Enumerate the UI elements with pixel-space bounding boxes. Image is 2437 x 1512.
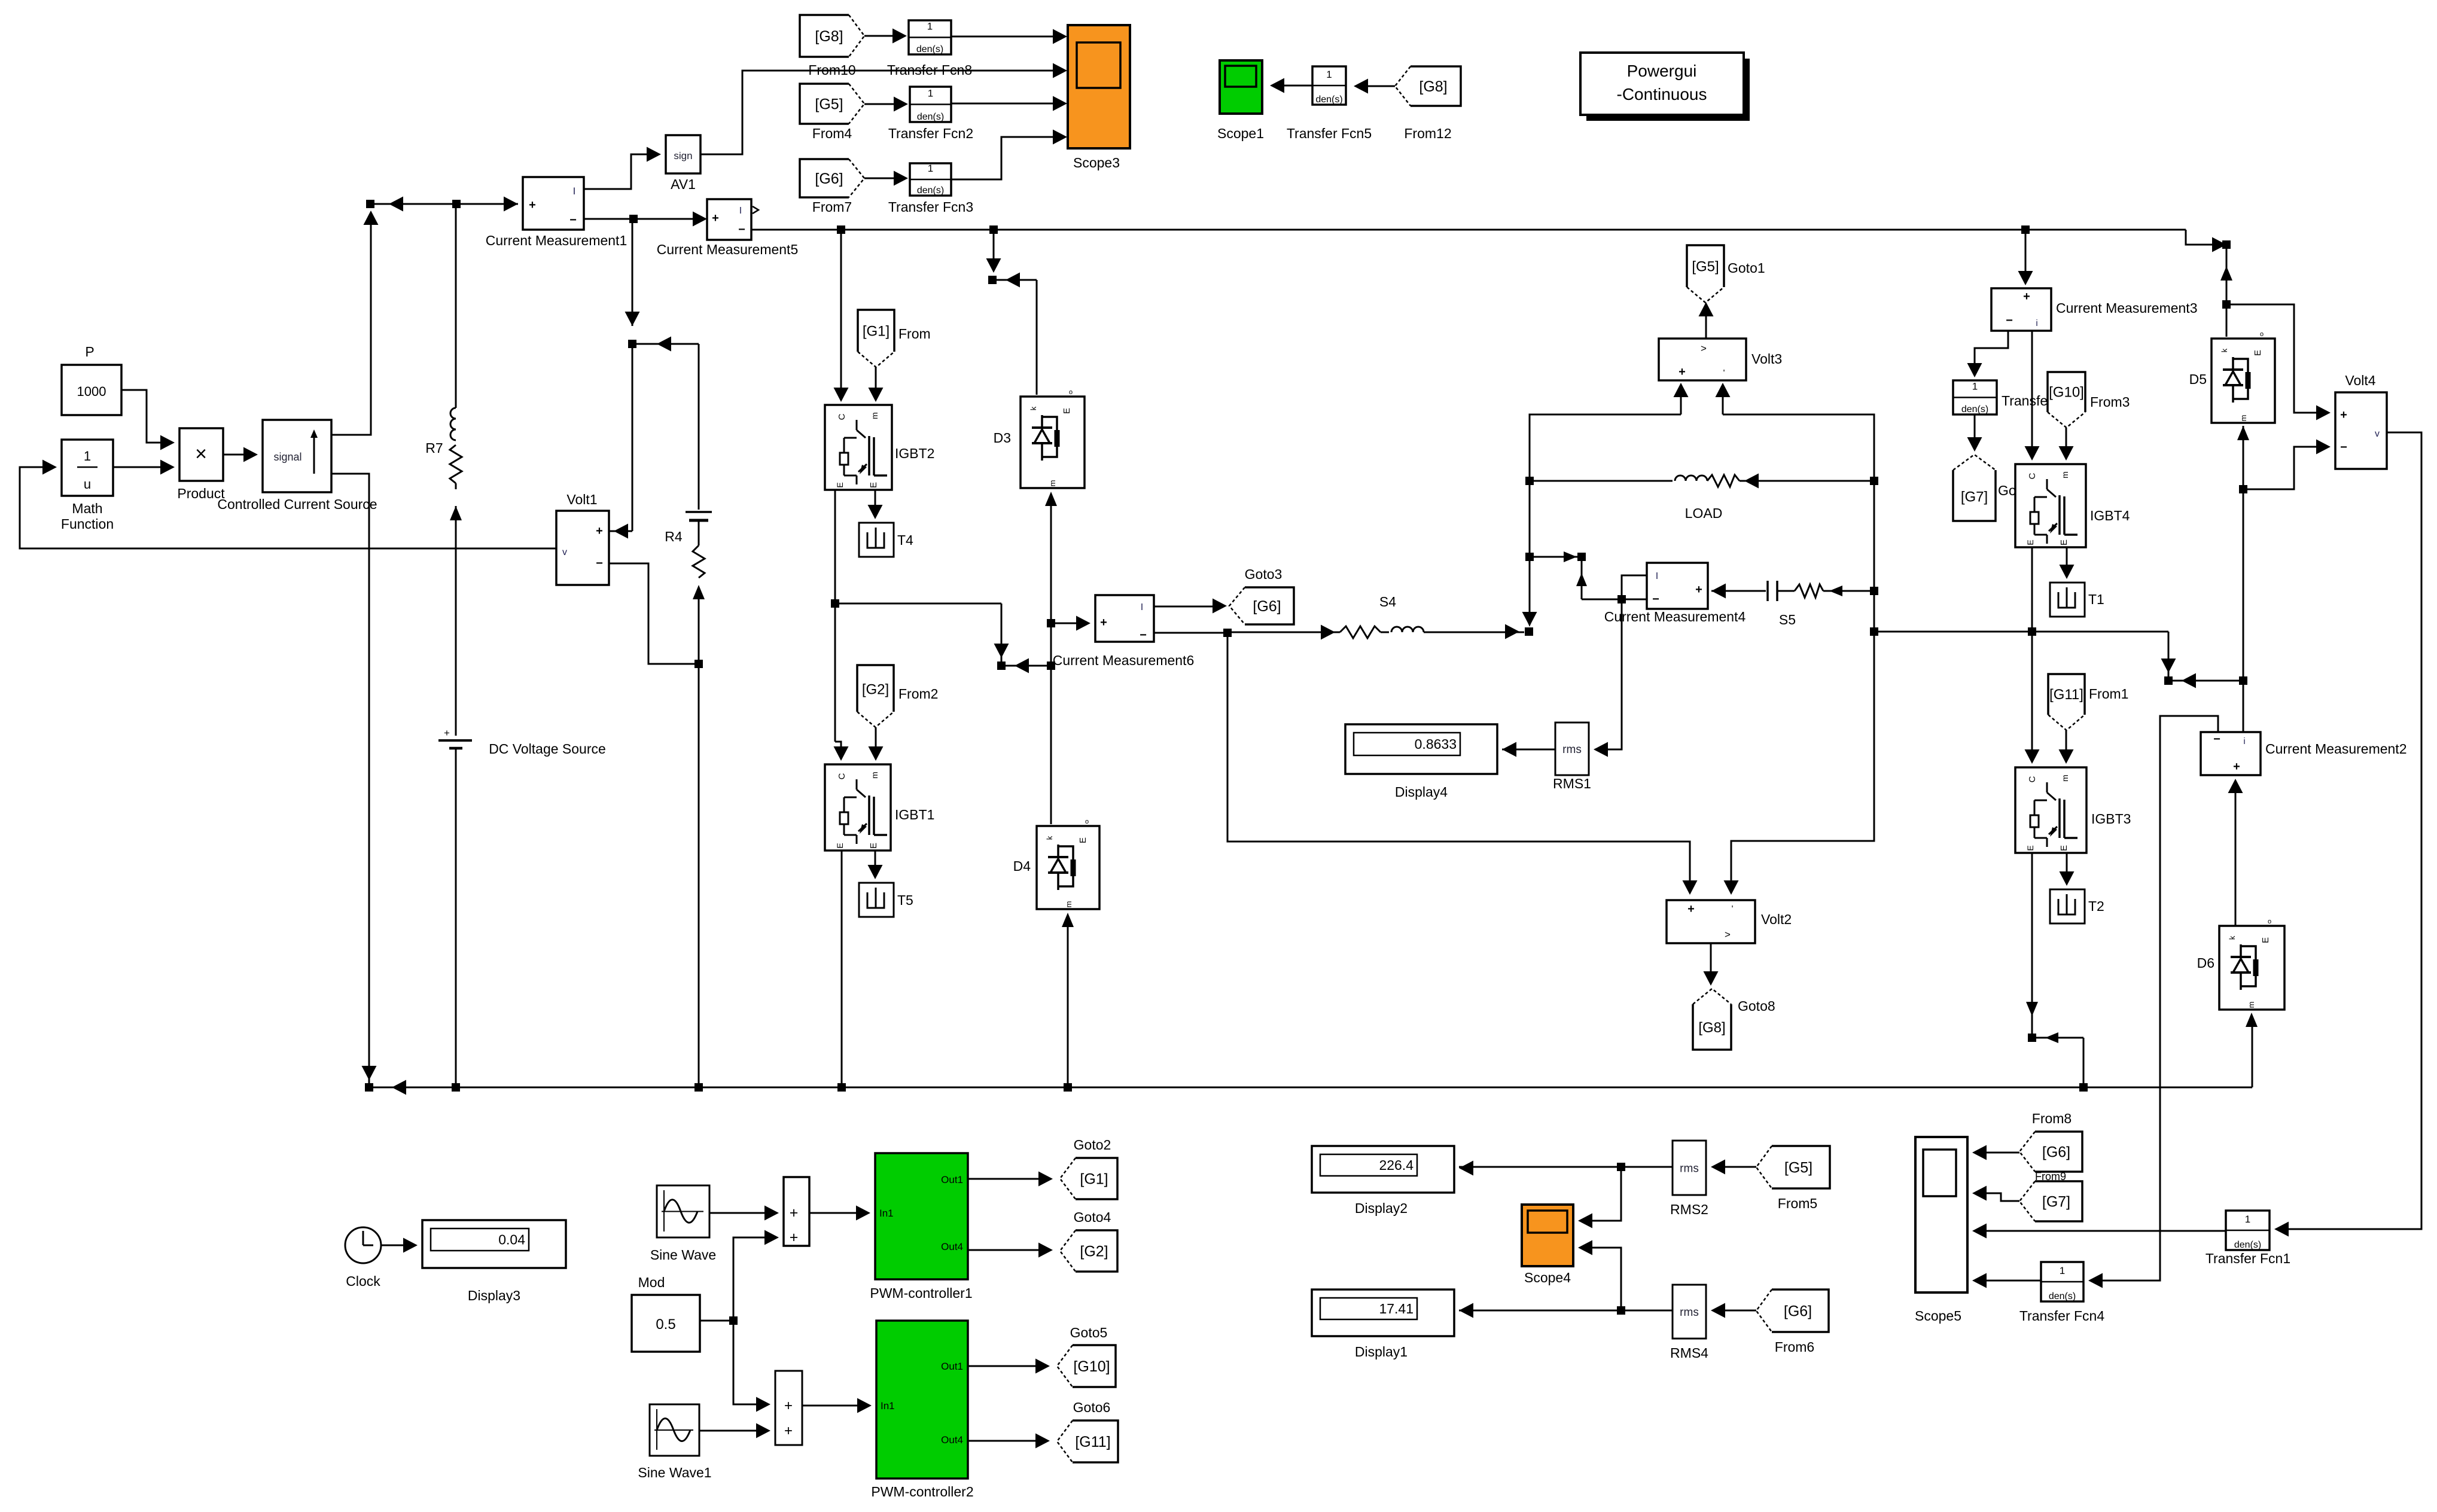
sum block Sum1 xyxy=(775,1371,802,1445)
svg-text:−: − xyxy=(2006,314,2013,327)
current measurement block Current Measurement4 xyxy=(1647,563,1708,609)
wire Mod to Sum1 first input xyxy=(733,1321,766,1404)
wire RMS1 to Display4 xyxy=(1502,749,1555,751)
svg-text:Scope3: Scope3 xyxy=(1073,155,1120,170)
igbt block IGBT2 xyxy=(825,405,892,490)
svg-text:[G6]: [G6] xyxy=(2042,1144,2070,1161)
igbt block IGBT3 xyxy=(2015,767,2086,853)
svg-text:o: o xyxy=(1085,818,1089,825)
wire D6 to Current Measurement2 plus xyxy=(2235,784,2237,926)
svg-text:m: m xyxy=(870,772,879,779)
svg-text:sign: sign xyxy=(674,150,692,161)
svg-text:Out4: Out4 xyxy=(941,1434,963,1446)
svg-text:signal: signal xyxy=(273,451,301,463)
svg-text:Current Measurement2: Current Measurement2 xyxy=(2265,741,2407,757)
svg-text:Transfer Fcn3: Transfer Fcn3 xyxy=(888,199,973,215)
svg-text:[G11]: [G11] xyxy=(1075,1434,1110,1450)
svg-text:v: v xyxy=(562,547,567,557)
wire controlled current source plus up to node A xyxy=(331,224,371,435)
junction on top rail to D3 xyxy=(989,225,998,234)
wire Mod output junction xyxy=(700,1320,733,1322)
svg-text:D6: D6 xyxy=(2197,955,2214,971)
svg-text:den(s): den(s) xyxy=(1961,404,1988,414)
wire Current Measurement1 I to AV1 xyxy=(584,154,656,189)
svg-text:I: I xyxy=(1656,571,1658,581)
svg-text:m: m xyxy=(2247,1002,2256,1008)
svg-text:-Continuous: -Continuous xyxy=(1617,85,1707,103)
wire D5 branch to Volt4 plus xyxy=(2226,304,2326,413)
svg-text:D4: D4 xyxy=(1013,858,1031,874)
current measurement block Current Measurement2 xyxy=(2201,732,2261,775)
svg-text:E: E xyxy=(2059,845,2069,851)
wire Sum1 to PWM-controller2 xyxy=(802,1405,867,1407)
svg-text:E: E xyxy=(2025,539,2035,545)
wire IGBT1 E to T5 xyxy=(875,850,876,876)
series RC branch R4 xyxy=(698,344,700,510)
svg-text:[G10]: [G10] xyxy=(2049,385,2084,401)
svg-text:−: − xyxy=(738,223,745,236)
svg-text:E: E xyxy=(835,843,845,848)
wire IGBT1 emitter to bottom rail xyxy=(841,850,843,1087)
svg-text:i: i xyxy=(2036,318,2037,328)
svg-text:+: + xyxy=(2340,409,2347,422)
svg-text:k: k xyxy=(2220,348,2229,352)
svg-text:Out4: Out4 xyxy=(941,1241,963,1252)
svg-text:[G6]: [G6] xyxy=(1253,598,1281,615)
wire Goto3 junction down to Volt2 plus xyxy=(1227,633,1690,890)
svg-text:m: m xyxy=(2060,775,2070,782)
svg-text:>: > xyxy=(1701,343,1707,354)
current measurement block Current Measurement5 xyxy=(707,199,751,240)
svg-text:E: E xyxy=(2059,539,2069,545)
from tag From7 [G6] xyxy=(800,159,864,197)
junction on top rail to IGBT2 xyxy=(837,225,845,234)
pwm controller subsystem PWM-controller1 xyxy=(875,1153,968,1279)
svg-text:Current Measurement4: Current Measurement4 xyxy=(1604,609,1746,624)
wire PWM-controller2 Out1 to Goto5 xyxy=(968,1365,1045,1367)
svg-text:Mod: Mod xyxy=(638,1275,665,1290)
svg-text:+: + xyxy=(1687,903,1695,916)
svg-text:den(s): den(s) xyxy=(2234,1240,2261,1250)
sine wave block Sine Wave1 xyxy=(650,1404,699,1456)
svg-text:−: − xyxy=(2213,733,2220,746)
wire junction down to R4 top xyxy=(632,219,633,326)
wire Sine Wave1 to Sum1 xyxy=(699,1430,766,1432)
diode block D5 xyxy=(2211,339,2275,423)
svg-text:C: C xyxy=(837,773,847,779)
svg-text:+: + xyxy=(784,1423,793,1439)
svg-text:Scope4: Scope4 xyxy=(1524,1270,1571,1285)
wire into Volt1 plus xyxy=(632,344,633,531)
svg-text:Current Measurement5: Current Measurement5 xyxy=(657,242,799,257)
junction on top rail to Current Measurement3 xyxy=(2021,225,2030,234)
series RLC branch R7 xyxy=(455,204,457,408)
svg-text:0.5: 0.5 xyxy=(656,1316,675,1333)
wire Transfer Fcn5 to Scope1 xyxy=(1275,85,1312,87)
wire IGBT2 emitter branch to diode rail xyxy=(835,603,1001,605)
svg-text:E: E xyxy=(1078,837,1088,843)
svg-text:From8: From8 xyxy=(2032,1111,2072,1126)
svg-text:+: + xyxy=(596,525,603,538)
svg-text:C: C xyxy=(2027,472,2037,479)
svg-text:C: C xyxy=(2027,776,2037,782)
svg-text:+: + xyxy=(784,1398,793,1414)
constant block Mod = 0.5 xyxy=(632,1295,700,1352)
svg-text:[G10]: [G10] xyxy=(1073,1358,1110,1375)
wire IGBT2 emitter jog into IGBT1 C xyxy=(835,742,841,757)
wire From2 to IGBT1 g xyxy=(875,727,877,757)
wire PWM-controller1 Out4 to Goto4 xyxy=(968,1249,1048,1251)
product block xyxy=(179,428,223,481)
svg-text:Transfer Fcn5: Transfer Fcn5 xyxy=(1287,126,1372,141)
from tag From6 [G6] xyxy=(1756,1290,1829,1332)
transfer function Transfer Fcn3 xyxy=(910,163,951,196)
svg-text:Sine Wave: Sine Wave xyxy=(650,1247,716,1263)
svg-text:1: 1 xyxy=(84,449,91,464)
sine wave block Sine Wave xyxy=(657,1185,709,1237)
current measurement block Current Measurement6 xyxy=(1095,595,1154,642)
pulse generator T1 xyxy=(2050,583,2085,617)
svg-text:+: + xyxy=(1100,616,1107,629)
wire rail to D5 cathode xyxy=(2226,245,2228,337)
svg-text:From1: From1 xyxy=(2089,686,2128,702)
wire IGBT4 E to T1 xyxy=(2066,547,2068,575)
rms block RMS1 xyxy=(1555,723,1589,775)
transfer function Transfer Fcn2 xyxy=(910,87,951,122)
svg-text:Transfer Fcn4: Transfer Fcn4 xyxy=(2019,1308,2105,1324)
svg-text:1: 1 xyxy=(2060,1265,2065,1276)
svg-text:0.04: 0.04 xyxy=(498,1232,525,1248)
wire Transfer Fcn3 to Scope3 in4 xyxy=(951,137,1062,179)
wire top rail down to IGBT2 C xyxy=(840,230,842,398)
wire RMS4 junction to Scope4 in2 xyxy=(1583,1248,1621,1310)
wire PWM-controller1 Out1 to Goto2 xyxy=(968,1178,1048,1180)
wire Volt2 v to Goto8 xyxy=(1710,943,1712,981)
svg-text:−: − xyxy=(1140,629,1147,642)
wire Current Measurement2 I out xyxy=(2093,716,2218,1281)
series RL branch S4 xyxy=(1227,632,1340,633)
scope Scope3 xyxy=(1068,25,1130,148)
svg-text:Out1: Out1 xyxy=(941,1174,963,1185)
wire AV1 to Scope3 in2 xyxy=(700,71,1062,154)
svg-text:m: m xyxy=(870,412,879,419)
clock block xyxy=(345,1227,381,1263)
svg-text:PWM-controller1: PWM-controller1 xyxy=(870,1285,972,1301)
wire Mod to Sum second input xyxy=(733,1237,774,1321)
svg-text:+: + xyxy=(444,727,450,739)
svg-text:Goto3: Goto3 xyxy=(1245,566,1283,582)
controlled current source xyxy=(263,420,331,492)
pulse generator T2 xyxy=(2050,889,2085,923)
wire RMS2 junction to Scope4 in1 xyxy=(1583,1167,1621,1221)
svg-text:S5: S5 xyxy=(1779,612,1796,627)
svg-text:−: − xyxy=(2340,441,2347,454)
wire Transfer Fcn8 to Scope3 in1 xyxy=(951,36,1062,38)
display block Display3 xyxy=(422,1220,566,1268)
svg-text:17.41: 17.41 xyxy=(1379,1301,1414,1316)
wire Sine Wave to Sum xyxy=(709,1212,774,1214)
svg-text:T5: T5 xyxy=(897,892,913,908)
svg-text:RMS1: RMS1 xyxy=(1553,776,1591,791)
svg-text:IGBT3: IGBT3 xyxy=(2091,811,2131,827)
svg-text:k: k xyxy=(1045,836,1054,840)
svg-text:Out1: Out1 xyxy=(941,1361,963,1372)
wire From7 to Transfer Fcn3 xyxy=(864,178,903,179)
wire Volt3 v to Goto1 xyxy=(1705,306,1707,339)
svg-text:Volt4: Volt4 xyxy=(2345,373,2375,388)
wire Volt3 right rail xyxy=(1723,414,1874,890)
svg-text:×: × xyxy=(195,443,207,465)
svg-text:RMS4: RMS4 xyxy=(1670,1345,1708,1361)
svg-text:I: I xyxy=(1141,602,1143,612)
wire Clock to Display3 xyxy=(381,1245,413,1246)
svg-text:T2: T2 xyxy=(2088,898,2104,914)
pulse generator T5 xyxy=(859,883,894,917)
from tag From2 [G2] xyxy=(857,665,894,727)
svg-text:From4: From4 xyxy=(812,126,852,141)
wire Transfer Fcn7 to Goto7 xyxy=(1974,414,1976,447)
wire From to IGBT2 g xyxy=(875,367,877,398)
from tag From [G1] xyxy=(858,310,894,367)
svg-text:S4: S4 xyxy=(1379,594,1396,609)
wire into Current Measurement1 plus xyxy=(370,203,518,205)
svg-text:−: − xyxy=(596,557,603,570)
svg-text:P: P xyxy=(85,344,94,359)
svg-text:From: From xyxy=(898,326,931,342)
svg-text:E: E xyxy=(1062,408,1072,414)
rms block RMS4 xyxy=(1673,1285,1706,1339)
svg-text:[G8]: [G8] xyxy=(1698,1020,1725,1036)
svg-text:IGBT4: IGBT4 xyxy=(2090,508,2130,523)
svg-text:Transfer Fcn2: Transfer Fcn2 xyxy=(888,126,973,141)
svg-text:PWM-controller2: PWM-controller2 xyxy=(871,1484,973,1499)
from tag From4 [G5] xyxy=(800,84,864,124)
svg-text:[G8]: [G8] xyxy=(1419,78,1447,95)
svg-text:Sine Wave1: Sine Wave1 xyxy=(638,1465,711,1480)
svg-text:Function: Function xyxy=(61,516,114,532)
voltage measurement block Volt4 xyxy=(2335,392,2387,469)
svg-text:v: v xyxy=(2375,429,2380,439)
powergui block xyxy=(1586,59,1750,121)
wire From4 to Transfer Fcn2 xyxy=(864,103,903,105)
wire Volt1 minus to R4 branch xyxy=(609,563,699,664)
wire From8 to Scope5 in1 xyxy=(1977,1152,2019,1154)
wire IGBT2 emitter down xyxy=(834,490,836,742)
svg-text:E: E xyxy=(869,482,879,488)
svg-text:[G6]: [G6] xyxy=(1784,1303,1812,1320)
svg-text:E: E xyxy=(835,482,845,487)
wire controlled current source minus down to bottom rail xyxy=(331,474,369,1087)
svg-text:I: I xyxy=(573,185,576,197)
svg-text:': ' xyxy=(1723,368,1725,378)
wire Volt3 left rail xyxy=(1530,414,1681,622)
wire R4 top to junction xyxy=(632,343,699,345)
rms block RMS2 xyxy=(1673,1141,1706,1195)
scope Scope5 xyxy=(1915,1137,1967,1292)
transfer function Transfer Fcn5 xyxy=(1312,66,1346,105)
wire Current Measurement6 I to Goto3 xyxy=(1154,606,1222,608)
wire From9 to Scope5 in2 xyxy=(1977,1193,2019,1201)
svg-text:IGBT2: IGBT2 xyxy=(895,446,934,461)
display block Display1 xyxy=(1312,1290,1454,1336)
svg-text:den(s): den(s) xyxy=(916,44,943,54)
svg-text:+: + xyxy=(1679,365,1686,379)
wire From5 to RMS2 xyxy=(1716,1166,1756,1168)
wire Transfer Fcn1 to Scope5 in3 xyxy=(1977,1230,2226,1232)
svg-text:i: i xyxy=(2243,736,2245,746)
goto tag Goto1 [G5] xyxy=(1687,245,1724,303)
svg-text:u: u xyxy=(84,477,91,492)
svg-text:1: 1 xyxy=(1326,69,1332,80)
wire IGBT4 emitter down to IGBT3 xyxy=(2031,547,2033,760)
svg-text:Scope5: Scope5 xyxy=(1915,1308,1961,1324)
svg-text:Current Measurement6: Current Measurement6 xyxy=(1053,653,1195,668)
wire RMS2 to Display2 xyxy=(1459,1166,1673,1168)
svg-text:[G2]: [G2] xyxy=(1080,1243,1108,1260)
svg-text:E: E xyxy=(2025,845,2035,850)
svg-text:+: + xyxy=(790,1205,799,1221)
current measurement block Current Measurement1 xyxy=(523,177,584,230)
igbt block IGBT1 xyxy=(825,764,891,850)
svg-text:k: k xyxy=(2228,935,2237,940)
current measurement block Current Measurement3 xyxy=(1991,288,2051,331)
transfer function Transfer Fcn7 xyxy=(1953,380,1997,414)
wire diode rail to Current Measurement6 plus xyxy=(1051,623,1086,624)
goto tag Goto8 [G8] xyxy=(1693,989,1731,1050)
wire Current Measurement1 minus to Current Measurement5 plus xyxy=(584,218,702,220)
svg-text:m: m xyxy=(1048,480,1057,487)
wire top rail down to Current Measurement3 xyxy=(2025,230,2027,281)
svg-text:+: + xyxy=(2233,760,2240,773)
svg-text:m: m xyxy=(2239,415,2248,422)
wire load net to right leg xyxy=(1874,631,2168,633)
from tag From1 [G11] xyxy=(2048,674,2085,730)
svg-text:Current Measurement1: Current Measurement1 xyxy=(486,233,627,248)
svg-text:den(s): den(s) xyxy=(917,112,944,122)
svg-text:rms: rms xyxy=(1562,743,1582,756)
svg-text:From3: From3 xyxy=(2090,394,2130,410)
wire From6 to RMS4 xyxy=(1716,1310,1756,1312)
svg-text:Goto8: Goto8 xyxy=(1738,998,1775,1014)
voltage measurement block Volt3 xyxy=(1659,339,1746,380)
wire From3 to IGBT4 g xyxy=(2066,428,2067,457)
svg-text:1: 1 xyxy=(927,21,933,32)
svg-text:T4: T4 xyxy=(897,532,913,548)
wire Volt4 v to Transfer Fcn1 xyxy=(2279,432,2421,1229)
svg-text:den(s): den(s) xyxy=(917,185,944,196)
diode block D4 xyxy=(1037,826,1099,909)
svg-text:>: > xyxy=(1725,929,1731,940)
wire From10 to Transfer Fcn8 xyxy=(864,35,902,37)
voltage measurement block Volt1 xyxy=(556,511,609,585)
wire Volt1 v output feedback to Math Function xyxy=(20,467,556,548)
svg-text:Volt1: Volt1 xyxy=(566,492,597,507)
from tag From3 [G10] xyxy=(2048,372,2085,428)
svg-text:Volt3: Volt3 xyxy=(1751,351,1782,367)
svg-text:Scope1: Scope1 xyxy=(1217,126,1264,141)
svg-text:Goto2: Goto2 xyxy=(1074,1137,1111,1153)
svg-text:From5: From5 xyxy=(1778,1196,1817,1211)
wire top rail corner to D5 xyxy=(2186,230,2222,245)
svg-text:0.8633: 0.8633 xyxy=(1415,736,1457,752)
svg-text:From12: From12 xyxy=(1404,126,1451,141)
wire Current Measurement3 i to IGBT4 C xyxy=(2031,331,2033,457)
svg-text:1: 1 xyxy=(928,88,933,99)
svg-text:From2: From2 xyxy=(898,686,938,702)
svg-text:IGBT1: IGBT1 xyxy=(895,807,934,822)
display block Display2 xyxy=(1312,1146,1454,1193)
wire Volt3 minus input xyxy=(1722,388,1724,414)
svg-text:Transfer Fcn1: Transfer Fcn1 xyxy=(2206,1251,2290,1266)
svg-text:226.4: 226.4 xyxy=(1379,1157,1414,1173)
wire Transfer Fcn4 to Scope5 in4 xyxy=(1977,1280,2041,1282)
svg-text:[G1]: [G1] xyxy=(863,323,889,339)
svg-text:Display2: Display2 xyxy=(1355,1200,1408,1216)
wire top rail jog to D3 xyxy=(993,230,995,269)
wire P to Product in1 xyxy=(121,390,170,443)
svg-text:[G6]: [G6] xyxy=(815,170,843,187)
svg-text:In1: In1 xyxy=(879,1208,894,1219)
series RL branch LOAD xyxy=(1530,480,1673,482)
svg-text:o: o xyxy=(2268,918,2271,925)
wire top rail from Current Measurement5 xyxy=(751,229,2186,231)
svg-text:+: + xyxy=(1695,583,1702,596)
transfer function Transfer Fcn1 xyxy=(2226,1211,2270,1250)
svg-text:AV1: AV1 xyxy=(671,176,696,192)
sum block xyxy=(784,1177,809,1246)
wire From1 to IGBT3 g xyxy=(2066,730,2067,760)
scope Scope1 xyxy=(1220,60,1262,114)
wire meeting diode rail xyxy=(1001,665,1051,667)
svg-text:+: + xyxy=(790,1229,799,1246)
svg-text:m: m xyxy=(2060,471,2070,478)
svg-text:1000: 1000 xyxy=(77,384,106,399)
display block Display4 xyxy=(1345,724,1497,774)
from tag From10 [G8] xyxy=(800,15,864,57)
wire Math Function to Product in2 xyxy=(113,467,170,468)
svg-text:[G7]: [G7] xyxy=(2042,1194,2070,1211)
svg-text:[G5]: [G5] xyxy=(1784,1160,1812,1176)
wire IGBT2 E to T4 xyxy=(875,490,876,516)
svg-text:In1: In1 xyxy=(881,1400,895,1412)
svg-text:Clock: Clock xyxy=(346,1273,380,1289)
svg-text:E: E xyxy=(2261,937,2271,943)
svg-text:Goto6: Goto6 xyxy=(1073,1400,1111,1415)
wire D5 anode down xyxy=(2237,426,2249,440)
wire Volt3 plus input xyxy=(1680,388,1682,414)
transfer function Transfer Fcn4 xyxy=(2041,1262,2083,1301)
svg-text:den(s): den(s) xyxy=(1315,94,1342,105)
svg-text:E: E xyxy=(869,843,879,849)
svg-text:C: C xyxy=(837,413,847,420)
svg-text:Controlled Current Source: Controlled Current Source xyxy=(217,496,377,512)
svg-text:−: − xyxy=(569,214,577,227)
wire Current Measurement4 I to RMS1 xyxy=(1598,575,1647,749)
node A - junction left of Current Measurement1 xyxy=(366,200,374,208)
svg-text:Goto5: Goto5 xyxy=(1070,1325,1108,1340)
svg-text:D3: D3 xyxy=(994,430,1011,446)
svg-text:+: + xyxy=(2023,290,2030,303)
transfer function Transfer Fcn8 xyxy=(909,20,951,54)
svg-text:From7: From7 xyxy=(812,199,852,215)
svg-text:E: E xyxy=(2253,350,2263,356)
svg-text:Display1: Display1 xyxy=(1355,1344,1408,1359)
from tag From12 [G8] xyxy=(1395,66,1461,106)
svg-text:From6: From6 xyxy=(1775,1339,1814,1355)
wire Current Measurement3 minus to Transfer Fcn7 xyxy=(1975,331,2008,373)
svg-text:rms: rms xyxy=(1680,1163,1699,1175)
svg-text:Display3: Display3 xyxy=(468,1288,520,1303)
